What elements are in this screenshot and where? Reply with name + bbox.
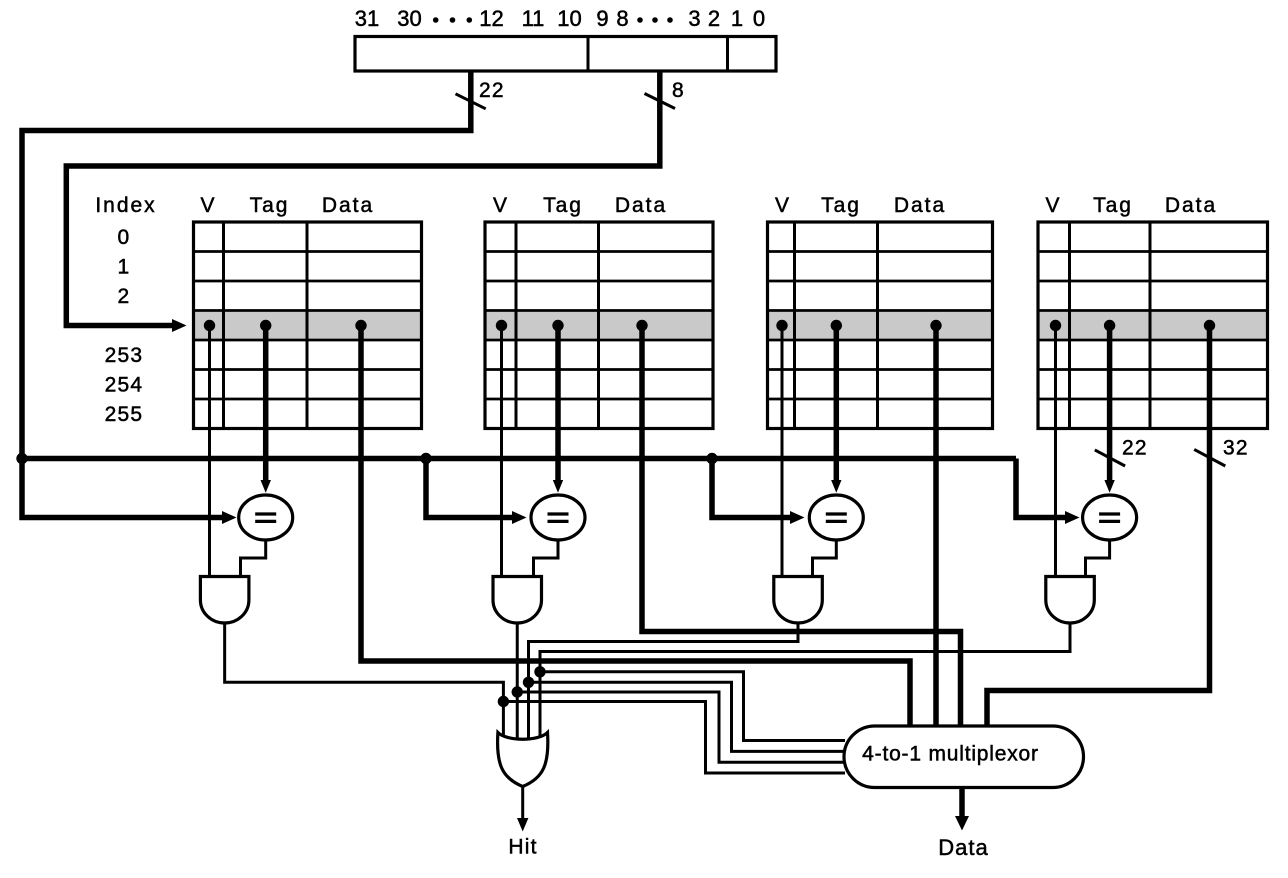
wire: bank1 tag to comparator U1 <box>263 326 269 481</box>
bank 3 table <box>768 222 993 429</box>
AND gate G4 <box>1046 577 1095 624</box>
wire: OR gate output (Hit) <box>521 786 524 819</box>
svg-text:255: 255 <box>105 403 144 426</box>
junction node on tag bus for comparator U3 <box>706 453 717 464</box>
slash on tag wire <box>456 94 486 109</box>
slash on bank4 data wire <box>1194 449 1225 466</box>
cache bank 1 table <box>194 222 422 429</box>
junction node on tag bus for comparator U2 <box>420 453 431 464</box>
wire: hit1 select to multiplexor <box>503 702 845 774</box>
node: bank1 Tag tap <box>260 320 271 331</box>
svg-text:Tag: Tag <box>1093 194 1133 217</box>
tag bus to comparators <box>22 456 1016 462</box>
node: bank1 V tap <box>204 320 215 331</box>
junction node select 2 <box>512 686 523 697</box>
wire: bank1 valid bit to AND gate <box>208 326 211 579</box>
wire: AND G4 output to OR gate input 4 <box>540 622 1070 740</box>
svg-text:V: V <box>200 194 216 217</box>
svg-text:3: 3 <box>688 6 700 31</box>
svg-text:V: V <box>493 194 509 217</box>
comparator U4 <box>1083 495 1137 540</box>
wire: bus end branch to comparator U4 <box>1016 459 1065 518</box>
node: bank1 Data tap <box>355 320 366 331</box>
bank 2 table <box>485 222 713 429</box>
wire: comparator U2 output to AND gate G2 <box>534 540 559 578</box>
slash on index wire <box>645 94 676 109</box>
svg-text:254: 254 <box>105 374 144 397</box>
svg-text:Tag: Tag <box>250 194 290 217</box>
slash on bank4 tag wire <box>1095 450 1125 466</box>
wire: hit4 select to multiplexor <box>540 672 845 741</box>
svg-text:22: 22 <box>479 79 505 102</box>
svg-text:31: 31 <box>355 6 379 31</box>
svg-text:0: 0 <box>118 226 131 249</box>
junction node select 3 <box>523 677 534 688</box>
wire: AND G1 output to OR gate input 1 <box>225 622 504 740</box>
wire: bank4 data to multiplexor input 4 <box>987 326 1210 733</box>
svg-text:8: 8 <box>616 6 628 31</box>
svg-text:4-to-1 multiplexor: 4-to-1 multiplexor <box>862 743 1039 766</box>
node: bank3 V tap <box>776 320 787 331</box>
svg-text:Hit: Hit <box>508 836 537 859</box>
arrowhead into comparator U1 <box>222 511 237 524</box>
svg-text:1: 1 <box>118 256 131 279</box>
svg-text:V: V <box>775 194 791 217</box>
svg-text:Tag: Tag <box>821 194 861 217</box>
wire: hit3 select to multiplexor <box>529 682 846 751</box>
address box field divider (tag/index) <box>587 37 590 72</box>
svg-text:Tag: Tag <box>543 194 583 217</box>
bank 2 column headers <box>493 194 667 217</box>
wire: bank1 data to multiplexor input 1 <box>361 326 910 733</box>
svg-text:1: 1 <box>731 6 743 31</box>
wire: comparator U1 output to AND gate G1 <box>241 540 266 578</box>
wire: comparator U4 output to AND gate G4 <box>1086 540 1110 578</box>
bit labels 31 30 ... 0 above address box <box>355 6 765 31</box>
AND gate G3 <box>774 577 823 623</box>
svg-text:Index: Index <box>95 194 156 217</box>
wire: AND G2 output to OR gate input 2 <box>516 622 519 740</box>
svg-text:12: 12 <box>479 6 503 31</box>
4-to-1 multiplexor <box>844 726 1084 788</box>
svg-text:2: 2 <box>708 6 720 31</box>
svg-text:8: 8 <box>672 79 685 102</box>
svg-text:Data: Data <box>615 194 667 217</box>
svg-text:Data: Data <box>322 194 374 217</box>
ellipsis dots in bit labels <box>433 17 673 23</box>
wire: bank2 tag to comparator U2 <box>555 326 561 481</box>
wire: bank3 data to multiplexor input 2 <box>933 326 939 733</box>
svg-text:Data: Data <box>938 835 988 860</box>
wire: bus branch to comparator U3 <box>712 459 790 518</box>
svg-text:2: 2 <box>118 285 131 308</box>
node: bank2 Data tap <box>636 320 647 331</box>
junction node select 1 <box>498 696 509 707</box>
bank 1 column headers <box>200 194 374 217</box>
wire: bank2 valid bit to AND gate <box>500 326 503 579</box>
node: bank3 Tag tap <box>831 320 842 331</box>
AND gate G1 <box>200 577 249 624</box>
address box <box>355 37 776 72</box>
node: bank4 Tag tap <box>1104 320 1115 331</box>
wire: bank4 valid bit to AND gate <box>1054 326 1057 579</box>
node: bank2 V tap <box>496 320 507 331</box>
svg-text:32: 32 <box>1223 437 1249 460</box>
bank 4 column headers <box>1045 194 1217 217</box>
svg-text:11: 11 <box>522 6 545 31</box>
svg-text:0: 0 <box>753 6 765 31</box>
svg-text:22: 22 <box>1122 437 1148 460</box>
wire: comparator U3 output to AND gate G3 <box>813 540 837 578</box>
bank 3 column headers <box>775 194 946 217</box>
wire: bank3 tag to comparator U3 <box>834 326 840 481</box>
svg-text:Data: Data <box>894 194 946 217</box>
svg-text:253: 253 <box>105 344 144 367</box>
comparator U1 <box>239 495 293 540</box>
wire: bus branch to comparator U2 <box>426 459 512 518</box>
wire: bank3 valid bit to AND gate <box>781 326 784 579</box>
OR gate <box>498 733 548 787</box>
comparator U3 <box>809 495 863 540</box>
wire: AND G3 output to OR gate input 3 <box>529 622 799 740</box>
node: bank4 V tap <box>1050 320 1061 331</box>
junction node on tag bus at left <box>16 453 27 464</box>
comparator U2 <box>531 495 585 540</box>
wire: multiplexor output (Data) <box>959 788 965 816</box>
node: bank3 Data tap <box>930 320 941 331</box>
arrowhead into bank 1 selected row <box>172 319 187 332</box>
junction node select 4 <box>534 666 545 677</box>
AND gate G2 <box>493 577 542 624</box>
bank 4 table <box>1038 222 1268 429</box>
svg-text:Data: Data <box>1165 194 1217 217</box>
wire: index (8-bit) from address box down-left to cache row select <box>66 71 660 326</box>
wire: tag (22-bit) from address box down-left to comparator row <box>22 71 471 518</box>
wire: bank4 tag to comparator U4 <box>1107 326 1113 481</box>
svg-text:30: 30 <box>397 6 421 31</box>
address box field divider (index/offset) <box>726 37 729 72</box>
wire: bank2 data to multiplexor input 3 <box>642 326 961 733</box>
svg-text:9: 9 <box>596 6 608 31</box>
node: bank2 Tag tap <box>552 320 563 331</box>
svg-text:V: V <box>1045 194 1061 217</box>
svg-text:10: 10 <box>557 6 581 31</box>
node: bank4 Data tap <box>1204 320 1215 331</box>
wire: hit2 select to multiplexor <box>517 692 845 762</box>
